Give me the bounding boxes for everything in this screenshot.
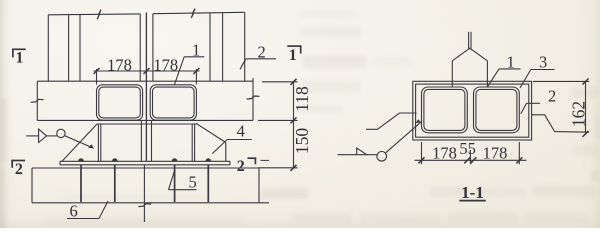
plate break jog left [366,113,417,129]
bottom dimension 178/55/178 [415,142,527,164]
wrap plate inner rectangle [416,84,529,137]
svg-text:178: 178 [153,56,178,75]
svg-text:118: 118 [292,86,312,112]
svg-text:1: 1 [16,49,24,66]
svg-text:2: 2 [15,161,23,178]
right column top edge [153,12,245,13]
svg-text:2: 2 [258,43,266,62]
stiffener lines center [141,121,151,161]
label 2 leader (section) [521,103,540,114]
bolt head 1 [78,158,84,161]
label 4 leader [212,140,252,154]
wrap plate outer rectangle [413,81,532,140]
break mark on right column top [191,9,195,18]
steel tube 2 (right, elevation) [150,85,196,120]
plate break jog right [531,115,589,132]
gusset left diagonal [62,124,97,161]
title underline [459,200,486,202]
gusset right diagonal [196,123,226,142]
svg-text:1: 1 [507,53,515,72]
svg-text:1: 1 [289,47,297,64]
label 2 leader (elevation) [240,59,276,70]
section mark 2 right [248,158,270,165]
section mark 1 right [287,45,301,53]
bolt head 4 [206,158,212,161]
svg-text:6: 6 [70,202,78,221]
stiffener pair right [192,124,194,161]
column centerline below with break [138,165,151,222]
tube section right [474,87,520,133]
svg-text:178: 178 [432,144,457,163]
bolt head 2 [112,158,118,161]
svg-text:2: 2 [548,87,556,106]
left column outer and face lines [48,14,140,81]
upper column stub (cap) [452,32,487,87]
column joint centre line [145,13,147,162]
label 1 leader (section) [488,69,521,86]
svg-text:4: 4 [237,122,245,141]
right column outer and face lines [153,12,245,81]
left column top edge [48,13,140,16]
base plate [60,161,230,165]
anchor bolt 2 [114,165,116,202]
bolt head 3 [172,158,178,161]
svg-text:178: 178 [483,144,508,163]
svg-text:2: 2 [237,158,245,175]
anchor bolt 4 [207,165,209,202]
faint bleed-through text from page reverse [299,10,355,19]
anchor bolt 3 [174,165,176,202]
tube section left [422,87,468,133]
steel tube 1 (left, elevation) [97,85,143,120]
svg-text:55: 55 [459,139,476,158]
weld symbol (section view) [338,119,421,161]
band left end with break [31,81,44,120]
weld symbol left (arrow, circle, leader) [26,129,93,148]
svg-text:5: 5 [189,173,197,192]
svg-text:3: 3 [539,53,547,72]
label 1 leader (elevation) [175,57,205,85]
section mark 2 left [11,160,25,168]
svg-text:162: 162 [569,101,589,127]
label 6 leader [67,201,108,219]
foundation outline [32,168,269,203]
break mark on left column top [97,10,101,19]
gusset right vertical edge [225,143,227,162]
anchor bolt 1 [80,165,82,202]
svg-text:150: 150 [292,128,312,155]
dimension 162 [533,79,589,137]
svg-text:1-1: 1-1 [461,183,484,202]
dimension line 178+178 [94,68,200,85]
label 3 leader (section) [520,70,555,89]
right side dimension chain 118/150 [258,79,298,171]
label 5 leader [169,170,197,190]
gusset trapezoid top edge [97,123,198,125]
beam band bottom edge [37,119,253,121]
section mark 1 left [12,49,26,58]
band right end with break [247,78,260,120]
svg-text:1: 1 [192,41,200,60]
svg-text:178: 178 [107,56,132,75]
beam band top edge [37,80,253,82]
stiffener pair left [98,124,100,161]
